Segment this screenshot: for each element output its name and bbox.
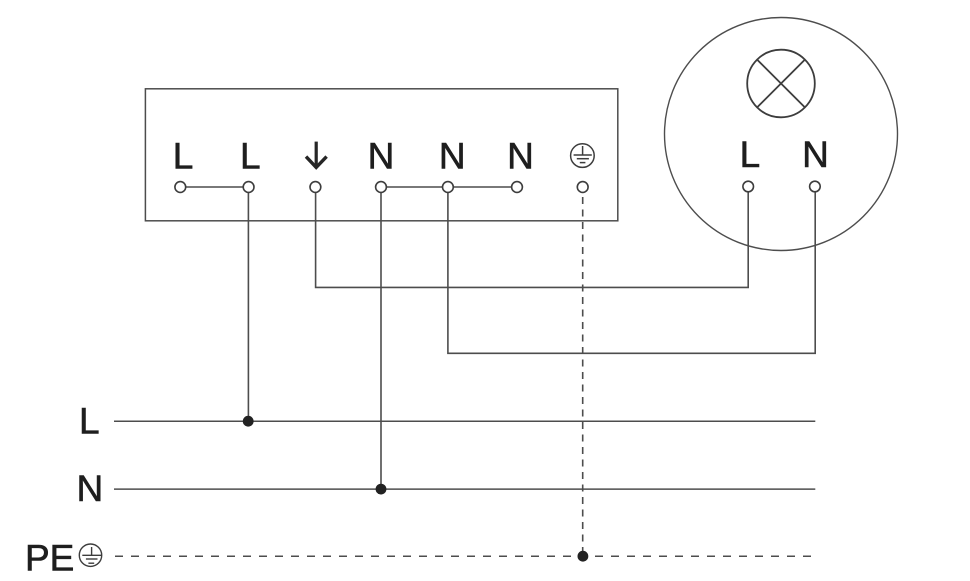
- wire: terminal 7 dashed down to PE bus: [582, 197, 584, 556]
- PE earth symbol: [79, 544, 101, 566]
- svg-text:N: N: [439, 136, 466, 177]
- wire: bridge terminal 1 to terminal 2: [180, 186, 248, 188]
- N bus wire: [114, 488, 815, 490]
- svg-text:L: L: [173, 136, 194, 177]
- L bus wire: [114, 420, 815, 422]
- terminal 5: [443, 182, 454, 193]
- junction dot on N bus (node N): [376, 484, 387, 495]
- wire: bridge terminal 4 to terminal 6: [381, 186, 517, 188]
- terminal 2: [243, 182, 254, 193]
- svg-text:N: N: [368, 136, 395, 177]
- terminal 7 (PE): [577, 182, 588, 193]
- arrow (switched output symbol, terminal 3): [306, 142, 327, 168]
- terminal 3: [310, 182, 321, 193]
- wire: terminal 2 down to L bus: [247, 187, 249, 421]
- lamp terminal N: [810, 181, 821, 192]
- junction dot on PE bus (node PE): [578, 551, 589, 562]
- terminal block box U1: [145, 89, 617, 221]
- svg-text:N: N: [507, 136, 534, 177]
- lamp symbol E1 (circle with cross): [747, 50, 815, 118]
- PE bus wire (dashed): [115, 555, 815, 557]
- terminal 1: [175, 182, 186, 193]
- lamp terminal L: [743, 181, 754, 192]
- protective earth symbol (terminal 7 label): [571, 144, 595, 168]
- luminaire enclosure circle: [665, 18, 898, 251]
- svg-text:L: L: [79, 401, 100, 442]
- terminal 4: [376, 182, 387, 193]
- svg-text:N: N: [802, 134, 829, 175]
- wire: terminal 3 to lamp L (down, right, up): [316, 187, 749, 287]
- svg-text:PE: PE: [25, 538, 74, 579]
- svg-text:L: L: [240, 136, 261, 177]
- svg-text:N: N: [77, 468, 104, 509]
- wire: terminal 4 down to N bus: [380, 187, 382, 489]
- wire: terminal 5 to lamp N (down, right, up): [448, 187, 815, 353]
- terminal 6: [512, 182, 523, 193]
- svg-text:L: L: [740, 134, 761, 175]
- junction dot on L bus (node L): [243, 416, 254, 427]
